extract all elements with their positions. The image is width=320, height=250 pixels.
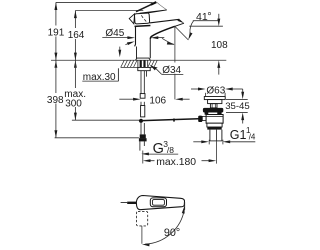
waste dark band <box>207 127 221 130</box>
arrow max300 top <box>74 53 77 61</box>
svg-text:°: ° <box>207 11 211 23</box>
tailpipe center extension <box>215 141 217 164</box>
body right edge <box>149 38 151 59</box>
extension line 398 bottom <box>55 137 139 139</box>
spout underside curve <box>150 26 175 39</box>
tailpipe <box>209 130 211 141</box>
rod tick <box>173 119 175 122</box>
35-45 bottom ref line <box>226 111 248 113</box>
drain neck <box>208 100 222 104</box>
G3/8 underline + arrow <box>146 153 178 155</box>
svg-text:35-45: 35-45 <box>225 101 250 112</box>
aerator arrow <box>154 37 165 39</box>
body top seam <box>135 25 151 28</box>
svg-text:/4: /4 <box>249 132 256 141</box>
waste body <box>206 115 223 124</box>
cartridge block <box>134 13 149 24</box>
clevis link <box>202 116 206 120</box>
cartridge axis dashes <box>141 15 146 21</box>
extension line top 191 <box>56 1 153 3</box>
max.30 tick up <box>117 68 119 81</box>
Ø34 underline <box>162 73 184 75</box>
hose tube lower <box>140 123 142 134</box>
lever loop inner <box>153 200 165 206</box>
35-45 dim arrows <box>242 89 244 93</box>
faucet: lever upper bar <box>136 2 156 11</box>
svg-text:max.180: max.180 <box>156 157 196 168</box>
shank dark bars <box>140 60 142 67</box>
arrow 191 bottom <box>54 60 57 68</box>
spout end bevel <box>175 23 184 26</box>
lever tip tick <box>184 202 186 210</box>
41 degree leader arrowhead <box>187 32 193 40</box>
G3/8 dark fitting <box>140 134 146 138</box>
hose connector <box>140 94 145 99</box>
lever loop outer <box>150 198 166 207</box>
rod clevis knob <box>198 116 202 122</box>
41 degree arc + arrow <box>162 38 174 44</box>
svg-text:300: 300 <box>65 98 82 109</box>
shank right wall <box>147 60 149 67</box>
svg-text:Ø63: Ø63 <box>206 85 225 96</box>
dimension 164 vertical line <box>74 11 76 61</box>
spout tip wedge <box>177 19 184 23</box>
svg-text:191: 191 <box>48 28 65 39</box>
dimension 398 vertical line <box>55 60 57 138</box>
arrow 164 top <box>74 11 77 19</box>
svg-text:106: 106 <box>149 96 166 107</box>
spout stub line <box>121 202 128 204</box>
swivel axis line <box>141 226 143 244</box>
fitting tail lines <box>139 141 141 150</box>
extension line 164 <box>75 10 143 12</box>
max.180 dimension <box>142 151 144 164</box>
svg-text:164: 164 <box>68 30 85 41</box>
41 degree angled ray <box>175 26 189 40</box>
108 dim bottom arrow <box>218 67 220 75</box>
90 degree arc <box>145 209 184 244</box>
Ø45 underline + arrow <box>102 36 128 38</box>
arrow 398 top <box>54 53 57 61</box>
G1 1/4 arrows <box>193 141 202 143</box>
shank left wall <box>137 60 139 67</box>
41 degree vertical ray <box>174 26 176 99</box>
body left edge lower <box>136 47 138 59</box>
drain Ø63 extension lines <box>205 93 207 97</box>
lever lower sliver <box>140 10 167 15</box>
svg-text:108: 108 <box>211 40 228 51</box>
deck hatching <box>121 60 158 67</box>
plug housing <box>210 104 217 108</box>
arrow max300 bottom <box>74 113 77 121</box>
junction dot <box>139 119 143 123</box>
Ø63 arrows <box>191 88 199 90</box>
hose tube upper <box>140 71 142 94</box>
41 degree leader <box>190 21 194 34</box>
body left edge upper <box>134 26 137 46</box>
label Ø34 <box>162 63 185 74</box>
extension line max300 bottom <box>72 119 139 121</box>
max.30 underline <box>82 80 118 82</box>
41 underline <box>193 20 219 22</box>
locknut teeth <box>205 113 209 115</box>
pop-up rod stub <box>145 71 147 77</box>
max.30 arrow down to deck <box>119 47 121 51</box>
spout stub dark <box>127 202 136 204</box>
mounting nut <box>138 67 150 70</box>
108 extension line <box>189 25 223 27</box>
base plate <box>136 58 151 60</box>
svg-text:/8: /8 <box>167 145 174 155</box>
dimension 191 vertical line <box>55 2 57 60</box>
deck line <box>51 59 226 61</box>
hose end rectangle <box>141 106 145 117</box>
hose tube mid <box>140 102 142 106</box>
Ø45 second arrow <box>125 43 129 45</box>
deck bottom line <box>121 66 158 68</box>
pop-up rod horizontal <box>143 119 199 121</box>
lever end cap <box>157 2 167 10</box>
drain flange <box>204 97 225 100</box>
svg-text:90°: 90° <box>164 227 180 239</box>
waste mid band <box>207 123 222 127</box>
base dashed square <box>137 211 148 226</box>
lever rear wedge <box>129 14 134 24</box>
Ø34 leader <box>155 67 162 74</box>
arrow 164 bottom <box>74 60 77 68</box>
body pill <box>136 196 184 210</box>
svg-text:G: G <box>153 141 164 157</box>
35-45 top ref line <box>226 98 248 100</box>
106 dimension <box>119 98 134 100</box>
arrow 191 top <box>54 2 57 10</box>
spout top edge <box>149 19 179 23</box>
svg-text:G1: G1 <box>230 128 247 142</box>
108 dim top arrow <box>218 14 220 20</box>
svg-text:398: 398 <box>47 95 64 106</box>
dimension max.300 vertical line <box>74 60 76 120</box>
arrow 398 bottom <box>54 130 57 138</box>
locknut dark <box>203 108 223 113</box>
